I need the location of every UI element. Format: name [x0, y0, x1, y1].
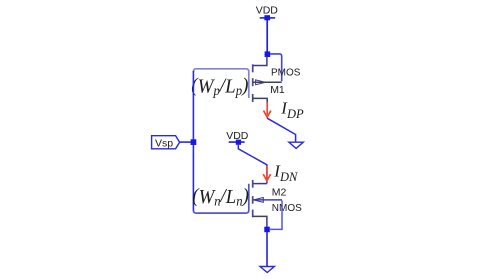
- node J1 (source/bulk junction): [265, 51, 271, 57]
- wire NMOS gate run from bus: [193, 184, 248, 213]
- (Wp/Lp) label: [191, 75, 248, 98]
- wire Vsp to bus: [180, 141, 194, 143]
- svg-text:PMOS: PMOS: [271, 68, 301, 79]
- NMOS bulk pin with arrow: [253, 198, 282, 203]
- ground (M2 source): [260, 267, 274, 273]
- svg-text:M2: M2: [272, 187, 287, 199]
- svg-text:M1: M1: [270, 84, 285, 96]
- wire VDD2 to M2 drain: [238, 145, 267, 184]
- svg-text:Vsp: Vsp: [155, 137, 173, 149]
- svg-text:NMOS: NMOS: [272, 203, 302, 214]
- wire M1 drain to ground: [267, 118, 295, 142]
- VDD top node square: [264, 15, 270, 20]
- VDD middle bar: [229, 141, 245, 143]
- (Wn/Ln) label: [192, 186, 249, 209]
- transistor M1 PMOS channel ticks: [252, 64, 254, 102]
- current arrow I_DP: [264, 102, 271, 117]
- PMOS bulk pin with arrow: [254, 80, 282, 85]
- wire J2 to ground: [266, 232, 268, 266]
- wire PMOS gate run from bus: [193, 69, 248, 98]
- NMOS drain stub: [253, 183, 267, 185]
- gate bus vertical: [192, 71, 194, 211]
- transistor M2 NMOS channel ticks: [252, 180, 254, 217]
- node J2 (source/bulk junction): [264, 227, 270, 233]
- current arrow I_DN: [263, 166, 270, 181]
- wire NMOS bulk to source junction: [270, 201, 282, 230]
- node J3 on bus: [191, 139, 197, 145]
- ground (M1 drain): [289, 142, 303, 148]
- wire J1 to bulk loop: [270, 54, 282, 81]
- PMOS drain stub: [253, 98, 268, 102]
- VDD middle node square: [236, 140, 241, 145]
- wire VDD to junction: [266, 20, 268, 52]
- wire J1 to PMOS source: [253, 57, 267, 66]
- Vsp input tag: [152, 136, 180, 149]
- svg-text:VDD: VDD: [256, 5, 279, 17]
- NMOS source stub: [253, 216, 267, 227]
- VDD top bar: [260, 17, 276, 19]
